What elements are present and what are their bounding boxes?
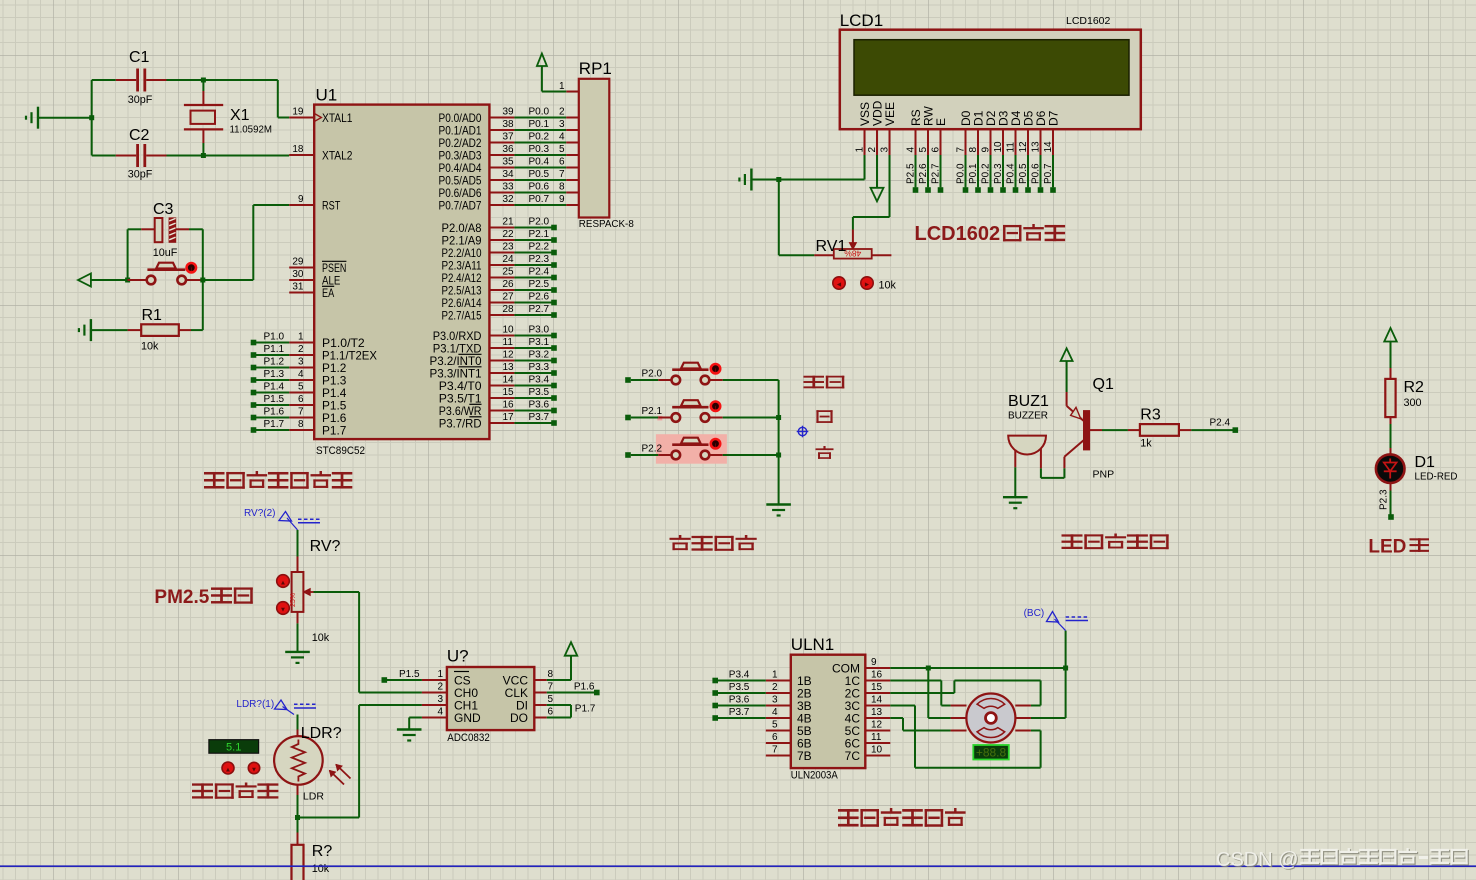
svg-text:10k: 10k — [312, 632, 330, 644]
svg-text:6: 6 — [559, 157, 565, 168]
terminal P2.3 — [514, 264, 554, 266]
svg-text:4: 4 — [298, 369, 304, 380]
wire reset left vertical — [127, 229, 129, 280]
svg-text:29: 29 — [292, 257, 304, 268]
wire D1 to P2.3 — [1390, 483, 1392, 491]
RV? wiper arrow — [303, 589, 310, 596]
svg-text:P2.3: P2.3 — [1378, 489, 1389, 510]
highlight on button P2.2 — [656, 434, 727, 464]
arrow net left — [91, 279, 128, 281]
svg-text:3: 3 — [772, 695, 778, 706]
svg-text:30pF: 30pF — [128, 94, 153, 106]
ADC pin 1 CS — [422, 679, 447, 681]
probe (BC) — [1065, 631, 1067, 668]
svg-text:C2: C2 — [129, 127, 150, 144]
svg-text:P2.6: P2.6 — [918, 163, 929, 184]
svg-text:P2.4: P2.4 — [529, 267, 550, 278]
svg-text:5: 5 — [918, 147, 929, 153]
terminal P3.6 — [712, 703, 718, 709]
label jia — [816, 410, 832, 423]
wire reset to RST pin — [203, 279, 254, 281]
terminal P3.7 — [514, 422, 554, 424]
svg-text:DO: DO — [510, 711, 528, 725]
ULN pin 4 4B — [766, 717, 791, 719]
U1 pin 8 P1.7 — [289, 429, 314, 431]
svg-text:1: 1 — [772, 670, 778, 681]
wire P0.6 to RP1 — [514, 192, 566, 194]
ULN pin 2 2B — [766, 692, 791, 694]
U1 chip body — [314, 105, 489, 440]
svg-text:3: 3 — [880, 147, 891, 153]
svg-text:1: 1 — [437, 669, 443, 680]
svg-text:P3.5: P3.5 — [529, 387, 550, 398]
svg-text:P0.0: P0.0 — [956, 163, 967, 184]
svg-text:P1.4: P1.4 — [264, 382, 285, 393]
potentiometer RV? 10k — [297, 557, 299, 573]
svg-text:30pF: 30pF — [128, 169, 153, 181]
svg-text:BUZZER: BUZZER — [1008, 410, 1048, 422]
svg-text:9: 9 — [871, 657, 877, 668]
button P2.1 — [625, 415, 631, 421]
U1 pin 37 P0.2/AD2 — [489, 142, 514, 144]
svg-text:LCD1602: LCD1602 — [915, 223, 1001, 245]
terminal P2.6 — [514, 302, 554, 304]
resistor R1 10k — [90, 319, 92, 341]
node COM j2 — [1063, 666, 1068, 671]
svg-text:25: 25 — [503, 267, 515, 278]
power arrow Q1 — [1061, 348, 1073, 361]
RP1 pin 9 — [566, 204, 579, 206]
svg-text:R1: R1 — [142, 307, 163, 324]
terminal P1.6 — [594, 690, 600, 696]
svg-text:R2: R2 — [1404, 379, 1425, 396]
U1 pin 4 P1.3 — [289, 379, 314, 381]
svg-text:23: 23 — [503, 242, 515, 253]
svg-text:13: 13 — [1031, 141, 1042, 153]
wire LCD D3 to P0.3 — [1002, 155, 1004, 187]
svg-text:11.0592M: 11.0592M — [230, 124, 273, 136]
svg-text:P0.3: P0.3 — [993, 163, 1004, 184]
U1 pin 10 P3.0/RXD — [489, 335, 514, 337]
svg-text:►: ► — [864, 282, 871, 289]
svg-text:P2.0: P2.0 — [529, 217, 550, 228]
svg-text:P2.7: P2.7 — [529, 304, 550, 315]
wire LCD D2 to P0.2 — [990, 155, 992, 187]
U1 pin 19 XTAL1 — [289, 117, 314, 119]
capacitor C3 10uF — [128, 228, 142, 230]
terminal P2.4 — [1233, 427, 1239, 433]
svg-text:P0.2: P0.2 — [529, 132, 550, 143]
label jian — [816, 446, 834, 459]
button P2.2 indicator — [711, 439, 720, 448]
U1 pin 31 EA — [289, 292, 314, 294]
terminal P2.3 — [1388, 514, 1394, 520]
ADC ground — [409, 717, 422, 719]
svg-text:5: 5 — [772, 720, 778, 731]
svg-text:◄: ◄ — [836, 282, 843, 289]
svg-text:P1.5: P1.5 — [264, 394, 285, 405]
svg-text:Q1: Q1 — [1093, 376, 1114, 393]
U1 pin 14 P3.4/T0 — [489, 385, 514, 387]
svg-text:P2.4: P2.4 — [1210, 418, 1231, 429]
svg-text:RESPACK-8: RESPACK-8 — [579, 218, 634, 230]
ground buttons — [766, 503, 791, 505]
svg-text:P1.5: P1.5 — [399, 669, 420, 680]
wire 3C to motor right bottom — [890, 705, 915, 707]
U1 pin 6 P1.5 — [289, 404, 314, 406]
U1 pin 39 P0.0/AD0 — [489, 117, 514, 119]
svg-text:11: 11 — [871, 732, 882, 743]
transistor Q1 PNP — [1066, 392, 1068, 406]
svg-text:2: 2 — [298, 344, 304, 355]
svg-text:300: 300 — [1404, 397, 1422, 409]
svg-text:6: 6 — [931, 147, 942, 153]
svg-text:P3.7/RD: P3.7/RD — [439, 416, 482, 430]
svg-text:P0.7/AD7: P0.7/AD7 — [439, 198, 482, 212]
svg-text:P3.4: P3.4 — [529, 375, 550, 386]
svg-text:C1: C1 — [129, 49, 150, 66]
svg-text:PNP: PNP — [1093, 469, 1115, 481]
svg-text:P0.2: P0.2 — [981, 163, 992, 184]
ground buzzer — [1003, 496, 1028, 498]
resistor R3 1k — [1128, 429, 1140, 431]
U1 pin 16 P3.6/WR — [489, 410, 514, 412]
button P2.0 indicator — [711, 364, 720, 373]
svg-text:30: 30 — [292, 269, 304, 280]
button P2.0 — [625, 377, 631, 383]
U1 pin 35 P0.4/AD4 — [489, 167, 514, 169]
terminal P3.2 — [514, 360, 554, 362]
svg-text:3: 3 — [559, 119, 565, 130]
node button j2 — [776, 453, 781, 458]
ULN pin 1 1B — [766, 680, 791, 682]
wire 1C to motor left top — [890, 680, 941, 682]
button reset indicator — [187, 263, 196, 272]
wire P0.5 to RP1 — [514, 179, 566, 181]
svg-text:P2.2: P2.2 — [529, 242, 550, 253]
svg-text:7: 7 — [548, 682, 554, 693]
wire R2 to D1 — [1390, 424, 1392, 448]
svg-text:11: 11 — [1006, 142, 1017, 153]
svg-text:1: 1 — [855, 147, 866, 153]
ground LCD — [750, 169, 752, 191]
wire P0.0 to RP1 — [514, 117, 566, 119]
svg-text:12: 12 — [503, 350, 515, 361]
svg-text:39: 39 — [503, 107, 515, 118]
ULN pin 11 6C — [865, 742, 890, 744]
svg-text:14: 14 — [871, 695, 883, 706]
svg-text:↓: ↓ — [714, 403, 718, 412]
RP1 RESPACK-8 body — [579, 79, 610, 218]
ADC pin 2 CH0 — [422, 692, 447, 694]
svg-text:P3.5: P3.5 — [729, 682, 750, 693]
svg-text:U?: U? — [447, 647, 469, 666]
U1 pin 28 P2.7/A15 — [489, 314, 514, 316]
svg-text:(BC): (BC) — [1024, 608, 1045, 619]
svg-text:28: 28 — [503, 304, 515, 315]
wire P0.7 to RP1 — [514, 204, 566, 206]
svg-text:17: 17 — [503, 412, 515, 423]
U1 pin 36 P0.3/AD3 — [489, 154, 514, 156]
svg-text:13: 13 — [503, 362, 515, 373]
label buzzer alarm — [1062, 534, 1083, 549]
power down arrow VDD — [876, 155, 878, 187]
RP1 pin 3 — [566, 129, 579, 131]
svg-text:P2.5: P2.5 — [906, 163, 917, 184]
svg-text:D7: D7 — [1046, 110, 1060, 126]
ULN pin 12 5C — [865, 730, 890, 732]
svg-text:P0.4: P0.4 — [1006, 163, 1017, 184]
svg-text:P2.5: P2.5 — [529, 279, 550, 290]
terminal P3.4 — [712, 678, 718, 684]
potentiometer RV1 10k — [834, 249, 872, 259]
wire 2C to motor right top — [890, 692, 954, 694]
resistor R2 300 — [1390, 368, 1392, 379]
svg-text:6: 6 — [298, 394, 304, 405]
wire probe to RV pot — [297, 530, 299, 557]
LDR photoresistor — [274, 736, 323, 785]
terminal P2.2 — [514, 252, 554, 254]
terminal P3.0 — [514, 335, 554, 337]
svg-text:P1.2: P1.2 — [264, 357, 285, 368]
button reset — [147, 276, 156, 285]
wire LCD D6 to P0.6 — [1040, 155, 1042, 187]
wire LCD D0 to P0.0 — [965, 155, 967, 187]
svg-text:7B: 7B — [797, 749, 812, 763]
svg-text:1: 1 — [559, 81, 565, 92]
svg-text:6: 6 — [772, 732, 778, 743]
svg-text:2: 2 — [772, 682, 778, 693]
svg-text:P2.2: P2.2 — [642, 443, 663, 454]
svg-text:32: 32 — [503, 194, 515, 205]
svg-text:48%: 48% — [844, 249, 861, 259]
svg-text:P3.1: P3.1 — [529, 337, 550, 348]
svg-text:P0.6: P0.6 — [1031, 163, 1042, 184]
svg-text:25%: 25% — [290, 593, 297, 607]
wire VEE to RV1 wiper — [889, 155, 891, 217]
svg-text:RV1: RV1 — [816, 238, 847, 255]
terminal P3.6 — [514, 410, 554, 412]
svg-text:U1: U1 — [316, 86, 338, 105]
svg-text:LDR: LDR — [303, 791, 324, 803]
label shezhi — [804, 376, 825, 389]
svg-text:P2.6: P2.6 — [529, 292, 550, 303]
U1 pin 29 PSEN — [289, 267, 314, 269]
svg-text:1k: 1k — [1140, 438, 1152, 450]
svg-text:P2.0: P2.0 — [642, 368, 663, 379]
node reset left — [125, 278, 130, 283]
wire left vertical — [91, 80, 93, 156]
svg-text:XTAL1: XTAL1 — [322, 111, 353, 125]
node LCD gnd junction — [776, 177, 781, 182]
ADC pin 8 VCC — [534, 679, 547, 681]
RP1 pin 7 — [566, 179, 579, 181]
svg-text:RP1: RP1 — [579, 59, 612, 78]
RP1 pin 5 — [566, 154, 579, 156]
RP1 pin 4 — [566, 142, 579, 144]
svg-text:4: 4 — [906, 147, 917, 153]
svg-text:33: 33 — [503, 182, 515, 193]
svg-text:P0.7: P0.7 — [529, 194, 550, 205]
svg-text:ULN1: ULN1 — [791, 635, 834, 654]
U1 pin 18 XTAL2 — [289, 154, 314, 156]
svg-text:19: 19 — [292, 107, 304, 118]
svg-text:10k: 10k — [312, 863, 330, 875]
svg-text:1: 1 — [298, 332, 304, 343]
U1 pin 7 P1.6 — [289, 417, 314, 419]
svg-text:8: 8 — [968, 147, 979, 153]
node LDR junction — [295, 815, 300, 820]
svg-text:10: 10 — [871, 745, 883, 756]
svg-text:15: 15 — [871, 682, 883, 693]
svg-text:D1: D1 — [1415, 454, 1436, 471]
ULN pin 16 1C — [865, 680, 890, 682]
wire buttons common — [778, 380, 780, 505]
svg-text:P3.3: P3.3 — [529, 362, 550, 373]
svg-text:XTAL2: XTAL2 — [322, 148, 353, 162]
svg-text:P3.2: P3.2 — [529, 350, 550, 361]
svg-text:P1.7: P1.7 — [264, 419, 285, 430]
U1 pin 30 ALE — [289, 279, 314, 281]
ADC pin 7 CLK — [534, 692, 547, 694]
watermark line — [0, 865, 1476, 867]
svg-text:X1: X1 — [230, 107, 250, 124]
U1 P1 port terminals — [251, 340, 257, 346]
RP1 pin 8 — [566, 192, 579, 194]
svg-text:CSDN @: CSDN @ — [1216, 849, 1299, 871]
wire R3 to P2.4 — [1191, 429, 1233, 431]
resistor R? 10k — [297, 818, 299, 833]
svg-text:STC89C52: STC89C52 — [316, 445, 365, 457]
svg-text:↓: ↓ — [714, 440, 718, 449]
highlight on P2.1 wire — [657, 416, 662, 421]
svg-text:P0.0: P0.0 — [529, 107, 550, 118]
U1 pin 17 P3.7/RD — [489, 422, 514, 424]
svg-text:P2.1: P2.1 — [642, 406, 663, 417]
svg-text:27: 27 — [503, 292, 515, 303]
wire buzzer to ground — [1014, 467, 1016, 497]
wire XTAL bottom rail — [92, 155, 116, 157]
wire COM to motor left mid — [927, 668, 929, 718]
svg-text:9: 9 — [559, 194, 565, 205]
ULN pin 15 2C — [865, 692, 890, 694]
U1 pin 11 P3.1/TXD — [489, 347, 514, 349]
svg-text:P0.4: P0.4 — [529, 157, 550, 168]
svg-text:LDR?(1): LDR?(1) — [236, 699, 274, 710]
LCD screen — [854, 40, 1129, 95]
svg-text:18: 18 — [292, 144, 304, 155]
svg-text:P2.3: P2.3 — [529, 254, 550, 265]
svg-text:31: 31 — [292, 282, 304, 293]
svg-text:26: 26 — [503, 279, 515, 290]
svg-text:5: 5 — [298, 382, 304, 393]
U1 pin 12 P3.2/INT0 — [489, 360, 514, 362]
U1 pin 24 P2.3/A11 — [489, 264, 514, 266]
U1 pin 13 P3.3/INT1 — [489, 372, 514, 374]
label independent keys — [670, 535, 691, 550]
svg-text:P1.7: P1.7 — [322, 423, 347, 437]
terminal P3.1 — [514, 347, 554, 349]
label rain adjust — [192, 783, 213, 798]
U1 pin 25 P2.4/A12 — [489, 277, 514, 279]
svg-text:P3.0: P3.0 — [529, 325, 550, 336]
LCD1 body — [840, 30, 1141, 130]
svg-text:P2.7: P2.7 — [931, 163, 942, 184]
LDR adjust buttons — [222, 762, 234, 774]
terminal P3.4 — [514, 385, 554, 387]
svg-text:10: 10 — [993, 141, 1004, 153]
svg-text:P3.4: P3.4 — [729, 669, 750, 680]
svg-text:10k: 10k — [141, 341, 159, 353]
svg-text:VEE: VEE — [883, 102, 897, 126]
wire LDR to ADC CH1 — [298, 817, 360, 819]
U1 pin 9 RST — [289, 204, 314, 206]
svg-text:35: 35 — [503, 157, 515, 168]
ULN pin 7 7B — [766, 755, 791, 757]
origin marker — [798, 427, 806, 435]
terminal P2.7 — [514, 314, 554, 316]
svg-text:LCD1: LCD1 — [840, 11, 883, 30]
svg-text:LDR?: LDR? — [301, 725, 342, 742]
LDR light arrows — [330, 771, 345, 785]
power arrow R2 — [1384, 328, 1397, 342]
svg-text:14: 14 — [503, 375, 515, 386]
svg-text:P2.7/A15: P2.7/A15 — [442, 308, 482, 322]
ULN pin 5 5B — [766, 730, 791, 732]
svg-text:38: 38 — [503, 119, 515, 130]
wire LDR bottom — [297, 785, 299, 795]
svg-text:2: 2 — [867, 147, 878, 153]
svg-text:P0.6: P0.6 — [529, 182, 550, 193]
wire reset right vertical — [202, 229, 204, 330]
terminal P3.5 — [514, 397, 554, 399]
ground crystal — [38, 117, 92, 119]
wire P0.1 to RP1 — [514, 129, 566, 131]
svg-text:EA: EA — [322, 286, 334, 300]
svg-text:5: 5 — [559, 144, 565, 155]
wire CLK to P1.6 — [547, 692, 594, 694]
svg-text:↓: ↓ — [189, 264, 193, 273]
wire DI DO loop P1.7 — [547, 704, 571, 706]
wire COM rail — [890, 667, 1065, 669]
svg-text:5.1: 5.1 — [226, 742, 241, 754]
svg-text:3: 3 — [437, 694, 443, 705]
U1 pin 1 P1.0/T2 — [289, 342, 314, 344]
motor rpm display — [973, 745, 1009, 760]
wire LCD E to P2.7 — [940, 155, 942, 187]
svg-text:14: 14 — [1043, 141, 1054, 153]
U1 pin 32 P0.7/AD7 — [489, 204, 514, 206]
svg-text:4: 4 — [772, 707, 778, 718]
svg-text:P1.1: P1.1 — [264, 344, 285, 355]
svg-text:ADC0832: ADC0832 — [447, 732, 490, 744]
svg-text:RV?: RV? — [310, 538, 341, 555]
button P2.2 — [625, 452, 631, 458]
wire LCD RS to P2.5 — [915, 155, 917, 187]
terminal P3.5 — [712, 690, 718, 696]
wire P0.3 to RP1 — [514, 154, 566, 156]
svg-text:8: 8 — [559, 182, 565, 193]
terminal P2.1 — [514, 239, 554, 241]
U? ADC0832 body — [447, 667, 534, 730]
node COM j1 — [926, 666, 931, 671]
ULN pin 9 COM — [865, 667, 890, 669]
wire 4C to motor left bottom — [890, 717, 903, 719]
terminal P1.5 — [382, 677, 388, 683]
U1 pin 34 P0.5/AD5 — [489, 179, 514, 181]
svg-text:7: 7 — [559, 169, 565, 180]
svg-text:16: 16 — [871, 670, 883, 681]
